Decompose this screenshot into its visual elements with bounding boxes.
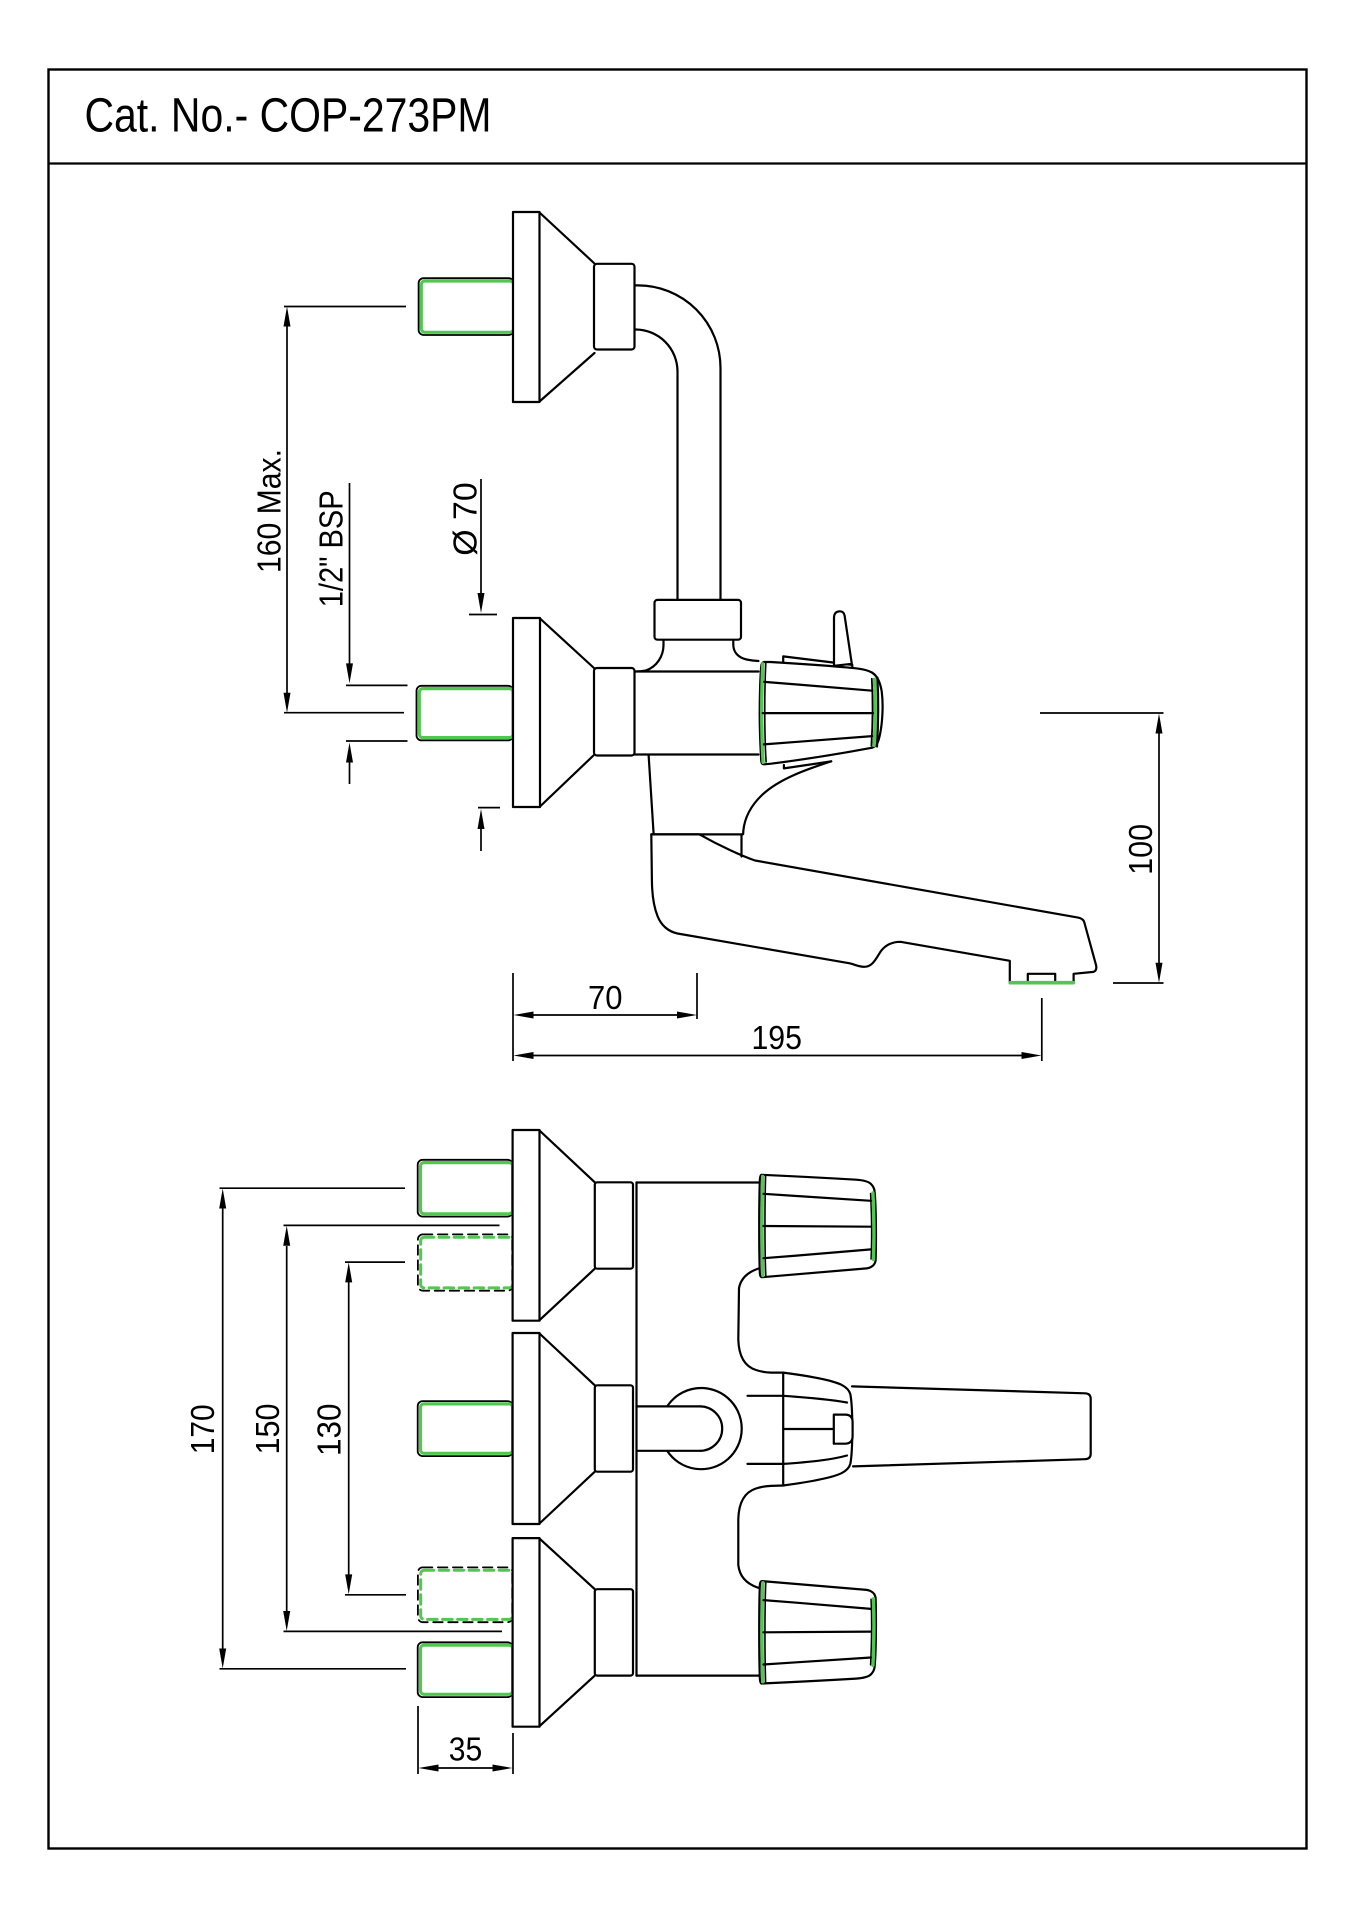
arrowheads 1/2 BSP <box>346 663 353 762</box>
plan view: riser pipe inner bore arc <box>700 1406 722 1450</box>
side view: body top collar <box>655 600 742 640</box>
wire <box>635 330 678 602</box>
plan view: spout <box>852 1386 1091 1466</box>
arrowheads 100 <box>1156 714 1163 983</box>
plan view: top inlet nipple (green) <box>418 1160 513 1217</box>
plan view: boss facet lines <box>748 1396 784 1464</box>
side view: bottom flange cone <box>540 619 595 807</box>
side view: collar edge below band <box>740 834 742 856</box>
arrowheads 150 <box>283 1226 290 1631</box>
plan view: diverter dome knob <box>783 1373 852 1486</box>
arrowheads 35 <box>419 1765 513 1772</box>
plan view: riser pipe elbow outer circle <box>667 1388 742 1469</box>
side view: top flange wall plate <box>513 212 540 402</box>
side view: top flange collar <box>594 264 635 350</box>
dimension 35 lines <box>418 1706 513 1774</box>
side view: riser pipe elbow <box>635 285 721 601</box>
plan view: top alternate nipple (dashed) <box>418 1234 513 1290</box>
dimension 170 lines <box>220 1188 407 1669</box>
dimension 130 lines <box>345 1262 406 1595</box>
svg-text:70: 70 <box>588 979 623 1016</box>
side view: top flange cone <box>540 213 595 402</box>
side view: body neck flare left <box>637 641 664 672</box>
arrowheads 70 <box>514 1012 698 1019</box>
plan view: middle flange wall plate <box>513 1333 540 1524</box>
side view: diverter fin <box>834 611 852 666</box>
plan view: top handle knob <box>759 1175 876 1277</box>
plan view: middle flange cone <box>540 1334 595 1524</box>
dimension dia70 lines <box>469 479 500 851</box>
title divider line <box>49 162 1307 164</box>
plan view: top flange cone <box>540 1131 595 1321</box>
dimension 150 lines <box>284 1225 503 1631</box>
plan view: body bottom edge <box>637 1674 762 1676</box>
svg-text:Ø 70: Ø 70 <box>446 482 483 556</box>
side view: bottom flange wall plate <box>513 618 540 807</box>
plan view: middle inlet nipple (green) <box>418 1401 513 1456</box>
plan view: bottom flange wall plate <box>513 1538 540 1727</box>
side view: handle flute lines <box>763 682 873 745</box>
plan view: dome tip button <box>834 1415 853 1444</box>
side view: top inlet nipple (green thread) <box>419 278 514 335</box>
plan view: bottom flange collar <box>595 1589 633 1675</box>
svg-text:195: 195 <box>751 1019 802 1056</box>
plan view: riser pipe stub lines <box>637 1406 701 1450</box>
plan view: body notch between top knob and boss <box>738 1269 783 1373</box>
arrowheads 160 <box>284 307 291 713</box>
svg-text:150: 150 <box>249 1404 286 1455</box>
svg-text:130: 130 <box>311 1403 348 1456</box>
plan view: body notch between boss and bottom knob <box>738 1486 783 1589</box>
plan view: body left edge <box>635 1183 637 1676</box>
plan view: bottom flange cone <box>540 1539 595 1727</box>
side view: handle left band inner line <box>765 663 766 762</box>
plan view: middle flange collar <box>595 1385 633 1471</box>
dimension 1/2 BSP lines <box>346 483 408 784</box>
plan view: top flange wall plate <box>513 1130 540 1321</box>
arrowheads dia70 <box>478 593 485 829</box>
svg-text:100: 100 <box>1122 824 1159 875</box>
side view: handle right green band <box>874 679 875 745</box>
plan view: bottom inlet nipple (green) <box>418 1642 513 1697</box>
svg-text:1/2" BSP: 1/2" BSP <box>313 490 350 607</box>
plan view: body top edge <box>637 1181 760 1183</box>
svg-text:35: 35 <box>449 1731 483 1768</box>
side view: bottom inlet nipple (green thread) <box>417 686 514 741</box>
arrowheads 170 <box>219 1189 226 1669</box>
dimension 160 Max. lines <box>284 307 406 713</box>
side view: spout body <box>651 834 1096 982</box>
side view: aerator inner rect <box>1028 974 1055 983</box>
side view: body neck flare right <box>733 641 758 662</box>
plan view: dome flute lines <box>783 1396 847 1464</box>
side view: body main block <box>635 672 760 755</box>
side view: bottom band line <box>651 833 742 835</box>
plan view: bottom handle knob (mirrored) <box>759 1581 876 1683</box>
plan view: top flange collar <box>595 1182 633 1268</box>
side view: handle right band inner line <box>871 679 872 746</box>
svg-text:Cat. No.- COP-273PM: Cat. No.- COP-273PM <box>85 89 492 143</box>
side view: handle lower tab <box>784 761 831 768</box>
side view: body wall collar <box>594 668 635 756</box>
side view: aerator green face <box>1010 981 1073 985</box>
side view: handle knob outline <box>760 662 883 764</box>
dimension 195 lines <box>533 998 1042 1061</box>
svg-text:160 Max.: 160 Max. <box>251 449 288 573</box>
svg-text:170: 170 <box>184 1404 221 1454</box>
arrowheads 195 <box>514 1052 1042 1059</box>
side view: lower stem left edge <box>649 755 654 834</box>
side view: handle left green band <box>762 664 763 763</box>
side view: handle end cap line <box>877 678 878 747</box>
plan view: bottom alternate nipple (dashed) <box>418 1567 513 1622</box>
arrowheads 130 <box>345 1262 352 1594</box>
dimension 70 lines <box>513 973 697 1061</box>
side view: lower stem right S-curve <box>743 761 831 834</box>
side view: handle upper tab <box>783 656 852 669</box>
dimension 100 lines <box>1040 713 1164 983</box>
